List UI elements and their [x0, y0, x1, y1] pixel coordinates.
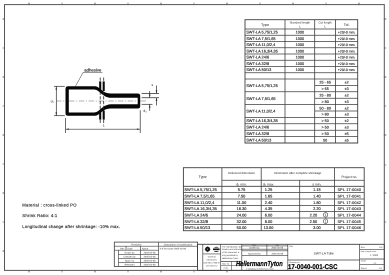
- svg-text:Tol.: Tol.: [344, 23, 350, 27]
- svg-text:SWT-LA 7,5/1,65: SWT-LA 7,5/1,65: [184, 193, 215, 198]
- svg-text:Rev.: Rev.: [361, 246, 366, 249]
- svg-text:Sheet: Sheet: [361, 267, 367, 270]
- svg-text:1000: 1000: [296, 68, 304, 72]
- svg-text:SPL 17-0041: SPL 17-0041: [338, 194, 362, 198]
- svg-text:7.50: 7.50: [238, 193, 246, 198]
- svg-text:2005-02-08: 2005-02-08: [144, 255, 156, 258]
- svg-text:0-0 first issue 2005-02-08: 0-0 first issue 2005-02-08: [160, 247, 187, 250]
- svg-text:1000: 1000: [296, 31, 304, 35]
- svg-text:±5: ±5: [345, 132, 349, 136]
- svg-text:8.00: 8.00: [265, 219, 273, 224]
- svg-text:2005-02-08: 2005-02-08: [144, 251, 156, 254]
- svg-text:1000: 1000: [296, 43, 304, 47]
- svg-text:1.25: 1.25: [265, 187, 273, 192]
- svg-text:SWT-LA 16,3/4,35: SWT-LA 16,3/4,35: [246, 48, 278, 53]
- svg-text:Dimension after complete shrin: Dimension after complete shrinkage: [274, 171, 321, 175]
- svg-text:only permitted by: only permitted by: [222, 254, 239, 257]
- svg-text:Type: Type: [199, 175, 207, 179]
- svg-text:DIN ISO 2768-m: DIN ISO 2768-m: [204, 261, 220, 264]
- svg-text:Date: Date: [128, 247, 134, 250]
- svg-text:1000: 1000: [296, 37, 304, 41]
- svg-text:SPL 17-0046: SPL 17-0046: [338, 226, 362, 230]
- svg-text:+20/-0 mm.: +20/-0 mm.: [338, 37, 356, 41]
- svg-text:2005-05-08: 2005-05-08: [272, 253, 284, 256]
- svg-text:50 - 80: 50 - 80: [319, 106, 330, 110]
- svg-text:SPL 17-0040: SPL 17-0040: [338, 188, 362, 192]
- svg-text:Delivered dimension: Delivered dimension: [228, 171, 255, 175]
- svg-text:11.00: 11.00: [237, 200, 247, 205]
- svg-text:SWT-LA 7,5/1,65: SWT-LA 7,5/1,65: [246, 96, 275, 101]
- svg-text:tribution and utilization: tribution and utilization: [222, 248, 244, 251]
- svg-text:+20/-0 mm.: +20/-0 mm.: [338, 56, 356, 60]
- svg-text:Mat.-no.: Mat.-no.: [222, 262, 230, 265]
- svg-text:SWT-LA 16,3/4,35: SWT-LA 16,3/4,35: [184, 206, 217, 211]
- svg-text:±3: ±3: [345, 126, 349, 130]
- svg-text:2005-02-08: 2005-02-08: [144, 259, 156, 262]
- svg-text:3.00: 3.00: [313, 225, 321, 230]
- svg-text:2.20: 2.20: [310, 212, 318, 217]
- svg-text:SWT-LA 11,0/2,4: SWT-LA 11,0/2,4: [184, 200, 215, 205]
- svg-text:1.15: 1.15: [313, 187, 321, 192]
- svg-text:25 - 65: 25 - 65: [319, 81, 330, 85]
- svg-text:SWT-LA 32/8: SWT-LA 32/8: [246, 131, 269, 136]
- svg-text:±3: ±3: [345, 87, 349, 91]
- svg-text:50.00: 50.00: [237, 225, 248, 230]
- svg-text:s: s: [151, 83, 153, 87]
- svg-text:SWT-LA Tülle: SWT-LA Tülle: [314, 251, 334, 255]
- svg-text:SWT-LA 11,0/2,4: SWT-LA 11,0/2,4: [246, 109, 276, 114]
- svg-text:1.40: 1.40: [313, 193, 321, 198]
- svg-text:of this document is: of this document is: [222, 251, 239, 254]
- svg-text:±2: ±2: [345, 119, 349, 123]
- svg-text:SWT-LA 24/6: SWT-LA 24/6: [184, 212, 208, 217]
- svg-text:SWT-LA 11,0/2,4: SWT-LA 11,0/2,4: [246, 42, 276, 47]
- svg-text:SPL 17-0045: SPL 17-0045: [338, 220, 362, 224]
- svg-text:SWT-LA 50/13: SWT-LA 50/13: [246, 67, 271, 72]
- svg-text:1000: 1000: [296, 62, 304, 66]
- svg-text:SWT-LA 5,75/1,25: SWT-LA 5,75/1,25: [246, 83, 278, 88]
- svg-text:+20/-0 mm.: +20/-0 mm.: [338, 49, 356, 53]
- svg-text:Released: Released: [125, 263, 135, 266]
- svg-text:Longitudinal change after shri: Longitudinal change after shrinkage: -10…: [22, 224, 120, 229]
- svg-text:1.80: 1.80: [313, 200, 321, 205]
- svg-text:> 50: > 50: [322, 132, 329, 136]
- svg-text:Name: Name: [142, 247, 149, 250]
- svg-text:±3: ±3: [345, 100, 349, 104]
- svg-text:16.30: 16.30: [237, 206, 248, 211]
- svg-text:a subsidiary of Hellermann Tyt: a subsidiary of Hellermann Tyton: [246, 267, 274, 270]
- svg-text:+20/-0 mm.: +20/-0 mm.: [338, 62, 356, 66]
- svg-text:2.20: 2.20: [313, 206, 321, 211]
- svg-text:see sheet 2: see sheet 2: [206, 264, 218, 267]
- svg-text:SWT-LA 5,75/1,25: SWT-LA 5,75/1,25: [184, 187, 217, 192]
- svg-text:13.00: 13.00: [264, 225, 275, 230]
- svg-text:4.35: 4.35: [265, 206, 273, 211]
- svg-text:SWT-LA 7,5/1,65: SWT-LA 7,5/1,65: [246, 36, 275, 41]
- svg-text:24.00: 24.00: [237, 212, 248, 217]
- svg-text:SPL 17-0043: SPL 17-0043: [338, 207, 362, 211]
- svg-text:SWT-LA 24/6: SWT-LA 24/6: [246, 55, 269, 60]
- svg-text:2.40: 2.40: [265, 200, 273, 205]
- svg-text:50: 50: [323, 138, 327, 142]
- svg-text:1 / 2005: 1 / 2005: [370, 254, 379, 257]
- svg-text:Scale: Scale: [361, 259, 367, 262]
- svg-text:1000: 1000: [296, 56, 304, 60]
- svg-text:1: 1: [325, 219, 327, 223]
- svg-text:±5: ±5: [345, 138, 349, 142]
- svg-text:s min.: s min.: [312, 183, 321, 187]
- svg-text:2.50: 2.50: [310, 219, 318, 224]
- svg-text:25 - 80: 25 - 80: [319, 94, 330, 98]
- svg-text:SPL 17-0044: SPL 17-0044: [338, 213, 362, 217]
- svg-text:tolerances: tolerances: [207, 258, 218, 261]
- svg-text:2005-05-08: 2005-05-08: [272, 247, 284, 250]
- svg-text:SPL 17-0042: SPL 17-0042: [338, 201, 362, 205]
- svg-text:±2: ±2: [345, 81, 349, 85]
- svg-text:32.00: 32.00: [237, 219, 248, 224]
- svg-text:Cust.: Cust.: [224, 267, 229, 270]
- svg-text:+20/-0 mm.: +20/-0 mm.: [338, 43, 356, 47]
- svg-text:Approved by: Approved by: [248, 253, 262, 256]
- svg-text:Drafted by: Drafted by: [249, 247, 260, 250]
- svg-text:> 65: > 65: [322, 87, 329, 91]
- svg-text:6.00: 6.00: [265, 212, 273, 217]
- svg-text:SWT-LA 32/8: SWT-LA 32/8: [246, 61, 269, 66]
- svg-text:17-0040-001-CSC: 17-0040-001-CSC: [288, 264, 338, 271]
- svg-text:HellermannTyton: HellermannTyton: [236, 259, 283, 268]
- svg-text:5.75: 5.75: [238, 187, 246, 192]
- svg-text:+20/-0 mm.: +20/-0 mm.: [338, 68, 356, 72]
- svg-text:SWT-LA 32/8: SWT-LA 32/8: [184, 219, 208, 224]
- svg-text:SWT-LA 16,3/4,35: SWT-LA 16,3/4,35: [246, 118, 278, 123]
- svg-text:1000: 1000: [296, 49, 304, 53]
- svg-text:Checked by: Checked by: [123, 255, 136, 258]
- svg-text:SWT-LA 24/6: SWT-LA 24/6: [246, 125, 269, 130]
- svg-text:1.65: 1.65: [265, 193, 273, 198]
- svg-text:> 80: > 80: [322, 113, 329, 117]
- svg-text:SWT-LA 50/13: SWT-LA 50/13: [246, 137, 271, 142]
- svg-text:Material : cross-linked PO: Material : cross-linked PO: [22, 202, 77, 207]
- svg-text:Rev.: Rev.: [120, 247, 125, 250]
- svg-text:Shrink Ratio: 4:1: Shrink Ratio: 4:1: [22, 213, 58, 218]
- svg-text:> 80: > 80: [322, 100, 329, 104]
- svg-text:±2: ±2: [345, 94, 349, 98]
- svg-text:1: 1: [325, 213, 327, 217]
- svg-text:Appd. by: Appd. by: [125, 259, 135, 262]
- svg-text:±3: ±3: [345, 113, 349, 117]
- svg-text:General: General: [208, 255, 216, 258]
- svg-text:Project no.: Project no.: [341, 175, 357, 179]
- svg-text:Description of modification: Description of modification: [164, 243, 193, 246]
- svg-text:SWT-LA 50/13: SWT-LA 50/13: [184, 225, 211, 230]
- svg-text:Revision: Revision: [131, 243, 142, 246]
- svg-text:> 50: > 50: [322, 126, 329, 130]
- svg-text:Date of appd. issue: Date of appd. issue: [361, 250, 376, 253]
- svg-text:The reproduction, dis-: The reproduction, dis-: [222, 245, 243, 248]
- svg-text:L: L: [103, 123, 105, 127]
- svg-text:SWT-LA 5,75/1,25: SWT-LA 5,75/1,25: [246, 30, 278, 35]
- svg-text:adhesive: adhesive: [84, 67, 102, 72]
- svg-text:Type: Type: [261, 23, 269, 27]
- svg-text:2005-02-08: 2005-02-08: [144, 263, 156, 266]
- svg-text:> 50: > 50: [322, 119, 329, 123]
- svg-text:+20/-0 mm.: +20/-0 mm.: [338, 31, 356, 35]
- svg-text:±2: ±2: [345, 106, 349, 110]
- svg-text:Drawn by: Drawn by: [125, 251, 136, 254]
